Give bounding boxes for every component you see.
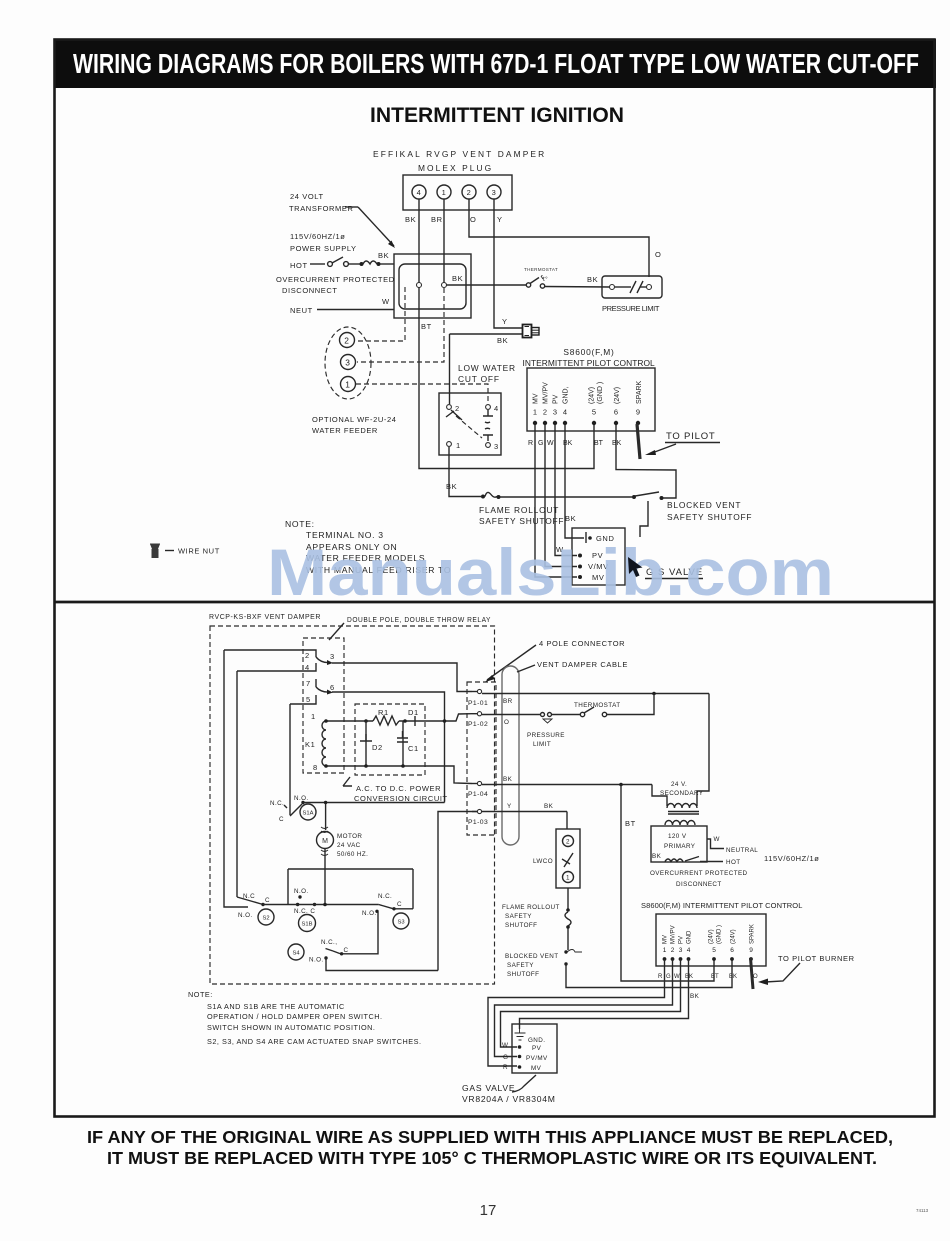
svg-text:BK: BK bbox=[690, 993, 700, 1000]
svg-text:O: O bbox=[655, 250, 661, 259]
svg-text:7: 7 bbox=[306, 679, 311, 688]
svg-text:INTERMITTENT PILOT CONTROL: INTERMITTENT PILOT CONTROL bbox=[523, 358, 656, 368]
svg-text:HOT: HOT bbox=[290, 261, 308, 270]
svg-text:S2: S2 bbox=[262, 916, 269, 922]
svg-text:6: 6 bbox=[330, 683, 335, 692]
svg-text:NOTE:: NOTE: bbox=[188, 990, 213, 999]
svg-text:3: 3 bbox=[494, 442, 499, 451]
svg-text:NOTE:: NOTE: bbox=[285, 519, 315, 529]
svg-text:MV/PV: MV/PV bbox=[671, 925, 677, 944]
svg-text:K1: K1 bbox=[305, 740, 315, 749]
svg-text:115V/60HZ/1ø: 115V/60HZ/1ø bbox=[290, 232, 345, 241]
svg-text:S8600(F,M): S8600(F,M) bbox=[563, 347, 614, 357]
svg-text:4: 4 bbox=[687, 947, 691, 954]
svg-text:FLAME ROLLOUT: FLAME ROLLOUT bbox=[502, 904, 560, 911]
svg-text:POWER SUPPLY: POWER SUPPLY bbox=[290, 244, 357, 253]
svg-text:(24V): (24V) bbox=[731, 929, 737, 944]
svg-text:R: R bbox=[503, 1064, 508, 1071]
svg-text:S1B: S1B bbox=[302, 922, 313, 928]
svg-text:N.O.: N.O. bbox=[294, 888, 309, 895]
svg-text:W: W bbox=[382, 297, 390, 306]
svg-text:FLAME ROLLOUT: FLAME ROLLOUT bbox=[479, 505, 559, 515]
svg-text:TO PILOT: TO PILOT bbox=[666, 431, 716, 442]
svg-text:TRANSFORMER: TRANSFORMER bbox=[289, 204, 354, 213]
svg-text:CUT OFF: CUT OFF bbox=[458, 374, 500, 384]
svg-text:PRIMARY: PRIMARY bbox=[664, 843, 696, 850]
svg-text:DOUBLE POLE, DOUBLE THROW RELA: DOUBLE POLE, DOUBLE THROW RELAY bbox=[347, 615, 491, 624]
svg-text:4: 4 bbox=[494, 404, 499, 413]
svg-text:(24V): (24V) bbox=[709, 929, 715, 944]
svg-text:HOT: HOT bbox=[726, 859, 741, 866]
svg-text:PV/MV: PV/MV bbox=[526, 1055, 548, 1062]
svg-text:BR: BR bbox=[431, 215, 443, 224]
svg-text:O: O bbox=[504, 719, 509, 726]
svg-text:2: 2 bbox=[467, 188, 472, 197]
svg-text:N.O.: N.O. bbox=[294, 795, 309, 802]
svg-text:1: 1 bbox=[311, 712, 316, 721]
svg-text:GND.: GND. bbox=[528, 1037, 545, 1044]
svg-text:BK: BK bbox=[452, 274, 463, 283]
svg-text:120 V: 120 V bbox=[668, 833, 687, 840]
svg-text:2: 2 bbox=[566, 839, 570, 846]
svg-text:BR: BR bbox=[503, 698, 513, 705]
svg-text:3: 3 bbox=[553, 408, 557, 417]
svg-text:24 VOLT: 24 VOLT bbox=[290, 192, 324, 201]
svg-text:R: R bbox=[658, 974, 663, 980]
svg-text:NEUTRAL: NEUTRAL bbox=[726, 847, 758, 854]
svg-text:MV: MV bbox=[533, 393, 540, 404]
svg-text:BT: BT bbox=[421, 322, 432, 331]
svg-text:WATER FEEDER: WATER FEEDER bbox=[312, 426, 378, 435]
svg-text:6: 6 bbox=[614, 408, 618, 417]
svg-text:BK: BK bbox=[652, 853, 662, 860]
svg-text:NEUT: NEUT bbox=[290, 306, 313, 315]
svg-text:74113: 74113 bbox=[916, 1208, 929, 1213]
svg-text:IT MUST BE REPLACED WITH TYPE: IT MUST BE REPLACED WITH TYPE 105° C THE… bbox=[107, 1148, 877, 1168]
svg-text:BK: BK bbox=[544, 803, 554, 810]
svg-text:PRESSURE: PRESSURE bbox=[527, 732, 565, 739]
svg-text:S1A: S1A bbox=[303, 811, 314, 817]
svg-text:IF ANY OF THE ORIGINAL WIRE AS: IF ANY OF THE ORIGINAL WIRE AS SUPPLIED … bbox=[87, 1127, 893, 1147]
svg-text:GND: GND bbox=[687, 930, 693, 944]
svg-text:(24V): (24V) bbox=[589, 387, 596, 404]
svg-text:GND,: GND, bbox=[563, 386, 570, 404]
svg-text:BK: BK bbox=[587, 275, 598, 284]
svg-text:1: 1 bbox=[442, 188, 447, 197]
svg-text:BLOCKED VENT: BLOCKED VENT bbox=[505, 953, 558, 960]
svg-text:SHUTOFF: SHUTOFF bbox=[507, 971, 539, 978]
svg-text:1: 1 bbox=[456, 441, 461, 450]
svg-text:115V/60HZ/1ø: 115V/60HZ/1ø bbox=[764, 854, 819, 863]
svg-text:R1: R1 bbox=[378, 708, 389, 717]
svg-text:50/60 HZ.: 50/60 HZ. bbox=[337, 851, 368, 858]
svg-text:C1: C1 bbox=[408, 744, 419, 753]
svg-text:BK: BK bbox=[729, 974, 737, 980]
svg-text:OPTIONAL WF-2U-24: OPTIONAL WF-2U-24 bbox=[312, 415, 397, 424]
svg-text:PV: PV bbox=[553, 394, 560, 404]
svg-text:BT: BT bbox=[711, 974, 719, 980]
svg-text:3: 3 bbox=[330, 652, 335, 661]
svg-text:Y: Y bbox=[497, 215, 503, 224]
svg-text:(GND ): (GND ) bbox=[717, 925, 723, 944]
svg-text:DISCONNECT: DISCONNECT bbox=[282, 286, 338, 295]
svg-text:THERMOSTAT: THERMOSTAT bbox=[574, 702, 620, 709]
svg-text:OPERATION / HOLD DAMPER OPEN S: OPERATION / HOLD DAMPER OPEN SWITCH. bbox=[207, 1012, 383, 1021]
svg-text:S3: S3 bbox=[397, 920, 404, 926]
svg-text:W: W bbox=[714, 836, 720, 843]
svg-text:GAS VALVE: GAS VALVE bbox=[462, 1083, 515, 1093]
svg-text:M: M bbox=[322, 838, 328, 845]
svg-text:S4: S4 bbox=[292, 951, 300, 957]
svg-text:1: 1 bbox=[533, 408, 537, 417]
svg-text:Y: Y bbox=[507, 803, 512, 810]
svg-text:1: 1 bbox=[566, 875, 570, 882]
svg-text:P1-04: P1-04 bbox=[468, 791, 488, 798]
svg-text:A.C. TO D.C. POWER: A.C. TO D.C. POWER bbox=[356, 784, 441, 793]
svg-text:t°: t° bbox=[543, 275, 548, 283]
svg-text:BK: BK bbox=[497, 336, 508, 345]
svg-text:PV: PV bbox=[532, 1045, 542, 1052]
svg-text:THERMOSTAT: THERMOSTAT bbox=[524, 267, 558, 272]
svg-text:3: 3 bbox=[679, 947, 683, 954]
svg-text:1: 1 bbox=[345, 380, 350, 390]
svg-text:O: O bbox=[470, 215, 476, 224]
svg-text:C: C bbox=[279, 816, 284, 823]
svg-text:EFFIKAL RVGP VENT DAMPER: EFFIKAL RVGP VENT DAMPER bbox=[373, 149, 545, 159]
svg-text:N.C.: N.C. bbox=[270, 800, 284, 807]
svg-text:BK: BK bbox=[565, 514, 576, 523]
svg-text:LWCO: LWCO bbox=[533, 858, 553, 865]
svg-text:MOTOR: MOTOR bbox=[337, 833, 362, 840]
svg-text:G: G bbox=[538, 440, 543, 447]
svg-text:Y: Y bbox=[502, 317, 508, 326]
svg-text:C: C bbox=[265, 897, 270, 904]
svg-text:SAFETY SHUTOFF: SAFETY SHUTOFF bbox=[479, 516, 564, 526]
svg-text:SHUTOFF: SHUTOFF bbox=[505, 922, 537, 929]
svg-text:OVERCURRENT PROTECTED: OVERCURRENT PROTECTED bbox=[276, 275, 395, 284]
svg-text:24 VAC: 24 VAC bbox=[337, 842, 361, 849]
svg-text:5: 5 bbox=[712, 947, 716, 954]
svg-text:C: C bbox=[397, 901, 402, 908]
svg-text:4: 4 bbox=[305, 663, 310, 672]
svg-text:PV: PV bbox=[679, 936, 685, 944]
svg-text:2: 2 bbox=[305, 651, 310, 660]
svg-text:BK: BK bbox=[446, 482, 457, 491]
svg-text:TO PILOT BURNER: TO PILOT BURNER bbox=[778, 954, 855, 963]
svg-text:OVERCURRENT PROTECTED: OVERCURRENT PROTECTED bbox=[650, 870, 748, 877]
svg-text:BT: BT bbox=[625, 819, 636, 828]
svg-text:N.C. C: N.C. C bbox=[294, 908, 315, 915]
svg-text:2: 2 bbox=[543, 408, 547, 417]
svg-text:SAFETY: SAFETY bbox=[507, 962, 534, 969]
svg-text:WIRING DIAGRAMS FOR BOILERS WI: WIRING DIAGRAMS FOR BOILERS WITH 67D-1 F… bbox=[73, 48, 919, 79]
svg-text:BK: BK bbox=[503, 776, 513, 783]
svg-text:24 V.: 24 V. bbox=[671, 781, 687, 788]
svg-text:O: O bbox=[753, 974, 758, 980]
svg-text:(24V): (24V) bbox=[614, 387, 621, 404]
svg-text:4 POLE CONNECTOR: 4 POLE CONNECTOR bbox=[539, 639, 625, 648]
svg-text:S1A AND S1B ARE THE AUTOMATIC: S1A AND S1B ARE THE AUTOMATIC bbox=[207, 1002, 345, 1011]
svg-text:MOLEX PLUG: MOLEX PLUG bbox=[418, 163, 492, 173]
svg-text:CONVERSION CIRCUIT: CONVERSION CIRCUIT bbox=[354, 794, 448, 803]
svg-text:6: 6 bbox=[730, 947, 734, 954]
svg-text:DISCONNECT: DISCONNECT bbox=[676, 881, 722, 888]
svg-text:BK: BK bbox=[378, 251, 389, 260]
svg-text:P1-02: P1-02 bbox=[468, 721, 488, 728]
svg-text:1: 1 bbox=[663, 947, 667, 954]
svg-text:S2, S3, AND S4 ARE CAM ACTUATE: S2, S3, AND S4 ARE CAM ACTUATED SNAP SWI… bbox=[207, 1037, 422, 1046]
svg-text:W: W bbox=[674, 974, 680, 980]
svg-text:LOW WATER: LOW WATER bbox=[458, 363, 516, 373]
svg-text:C: C bbox=[344, 947, 349, 954]
svg-text:MV: MV bbox=[663, 935, 669, 944]
svg-text:D1: D1 bbox=[408, 708, 419, 717]
svg-text:INTERMITTENT IGNITION: INTERMITTENT IGNITION bbox=[370, 104, 624, 127]
svg-text:N.C.,: N.C., bbox=[321, 939, 337, 946]
svg-text:N.O.: N.O. bbox=[362, 910, 377, 917]
svg-text:LIMIT: LIMIT bbox=[533, 741, 551, 748]
svg-text:W: W bbox=[502, 1042, 508, 1049]
svg-text:P1-01: P1-01 bbox=[468, 700, 488, 707]
svg-text:N.O.: N.O. bbox=[309, 957, 324, 964]
svg-text:SECONDARY: SECONDARY bbox=[660, 790, 704, 797]
svg-text:8: 8 bbox=[313, 763, 318, 772]
svg-text:SWITCH SHOWN IN AUTOMATIC POSI: SWITCH SHOWN IN AUTOMATIC POSITION. bbox=[207, 1023, 375, 1032]
svg-text:N.C.: N.C. bbox=[378, 893, 392, 900]
svg-text:9: 9 bbox=[749, 947, 753, 954]
svg-text:MV/PV: MV/PV bbox=[543, 382, 550, 404]
svg-text:3: 3 bbox=[492, 188, 497, 197]
svg-text:2: 2 bbox=[455, 404, 460, 413]
svg-text:VR8204A / VR8304M: VR8204A / VR8304M bbox=[462, 1094, 556, 1104]
svg-text:BLOCKED VENT: BLOCKED VENT bbox=[667, 500, 741, 510]
svg-text:G: G bbox=[503, 1054, 508, 1061]
svg-text:PRESSURE LIMIT: PRESSURE LIMIT bbox=[602, 304, 660, 313]
svg-text:5: 5 bbox=[592, 408, 596, 417]
svg-text:D2: D2 bbox=[372, 743, 383, 752]
svg-text:2: 2 bbox=[344, 336, 349, 346]
svg-text:5: 5 bbox=[306, 695, 311, 704]
svg-text:SAFETY: SAFETY bbox=[505, 913, 532, 920]
svg-text:SAFETY SHUTOFF: SAFETY SHUTOFF bbox=[667, 512, 752, 522]
svg-text:4: 4 bbox=[417, 188, 422, 197]
svg-text:P1-03: P1-03 bbox=[468, 819, 488, 826]
svg-text:WIRE NUT: WIRE NUT bbox=[178, 547, 220, 556]
svg-text:17: 17 bbox=[480, 1202, 497, 1219]
svg-text:3: 3 bbox=[345, 358, 350, 368]
svg-text:R: R bbox=[528, 440, 533, 447]
svg-text:VENT DAMPER CABLE: VENT DAMPER CABLE bbox=[537, 660, 628, 669]
svg-text:2: 2 bbox=[671, 947, 675, 954]
svg-text:SPARK: SPARK bbox=[636, 380, 643, 404]
svg-text:BK: BK bbox=[612, 440, 622, 447]
svg-text:MV: MV bbox=[531, 1065, 542, 1072]
svg-text:BK: BK bbox=[405, 215, 416, 224]
svg-text:RVCP-KS-BXF VENT DAMPER: RVCP-KS-BXF VENT DAMPER bbox=[209, 612, 321, 621]
svg-text:S8600(F,M) INTERMITTENT PILOT: S8600(F,M) INTERMITTENT PILOT CONTROL bbox=[641, 901, 803, 910]
svg-text:N.O.: N.O. bbox=[238, 912, 253, 919]
svg-text:ManualsLib.com: ManualsLib.com bbox=[267, 535, 834, 609]
svg-text:W: W bbox=[547, 440, 554, 447]
svg-text:SPARK: SPARK bbox=[750, 924, 756, 944]
svg-text:BT: BT bbox=[594, 440, 604, 447]
svg-text:4: 4 bbox=[563, 408, 567, 417]
svg-text:G: G bbox=[666, 974, 671, 980]
svg-text:(GND ): (GND ) bbox=[597, 382, 604, 404]
svg-text:9: 9 bbox=[636, 408, 640, 417]
